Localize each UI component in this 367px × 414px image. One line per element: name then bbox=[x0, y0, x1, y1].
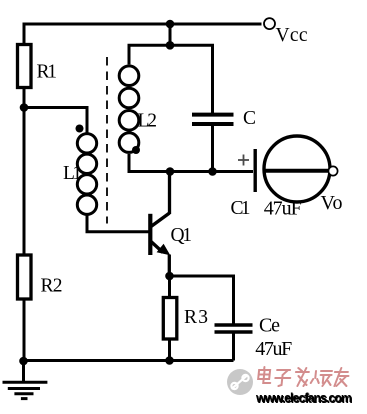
svg-text:R2: R2 bbox=[41, 276, 63, 297]
transistor Q1 emitter diagonal with arrowhead bbox=[151, 242, 163, 253]
L2 polarity dot bbox=[132, 146, 140, 154]
C1 plus polarity sign bbox=[238, 155, 249, 166]
wire bottom rail bbox=[24, 359, 234, 362]
ground bbox=[3, 361, 48, 399]
transformer coupling dashed line bbox=[106, 57, 108, 224]
resistor R1 bbox=[18, 45, 32, 88]
watermark logo circle bbox=[227, 369, 253, 395]
wire L2 bottom along tank bottom rail to C1 plate bbox=[129, 154, 253, 172]
svg-text:R1: R1 bbox=[37, 62, 58, 83]
wire R3 bottom bbox=[168, 339, 171, 361]
watermark title (vector strokes imitating CJK glyphs) bbox=[257, 367, 349, 386]
output terminal small circle bbox=[328, 166, 337, 175]
wire emitter vertical bbox=[168, 255, 171, 277]
Vcc terminal circle bbox=[264, 18, 275, 29]
svg-text:L2: L2 bbox=[138, 111, 158, 132]
wire left rail below R2 bbox=[23, 298, 26, 361]
node junction tank rail at x=170 bbox=[166, 41, 175, 50]
svg-text:Vcc: Vcc bbox=[276, 25, 308, 46]
node junction top wire at x=170 bbox=[166, 20, 175, 29]
svg-text:Vo: Vo bbox=[321, 192, 343, 214]
svg-text:www.elecfans.com: www.elecfans.com bbox=[255, 391, 352, 405]
transistor Q1 base bar bbox=[148, 214, 152, 255]
svg-text:C1: C1 bbox=[231, 198, 251, 219]
capacitor C plates bbox=[192, 113, 234, 117]
wire vertical link between top rail and tank rail bbox=[169, 24, 172, 45]
wire collector vertical bbox=[168, 172, 171, 215]
node junction emitter bbox=[165, 272, 174, 281]
wire left rail between R1 and R2 bbox=[23, 87, 26, 254]
svg-text:Ce: Ce bbox=[259, 315, 280, 337]
wire L1 bottom to Q1 base bbox=[87, 214, 149, 232]
transistor Q1 collector diagonal bbox=[151, 213, 170, 227]
inductor L2 bbox=[119, 66, 139, 153]
svg-text:L1: L1 bbox=[63, 163, 82, 184]
wire emitter to Ce branch bbox=[170, 276, 234, 324]
wire top rail from left corner to Vcc terminal bbox=[24, 24, 262, 45]
svg-text:47uF: 47uF bbox=[255, 338, 292, 360]
wire Ce bottom lead bbox=[232, 333, 235, 361]
node junction bottom rail at R3 bbox=[165, 356, 174, 365]
wire tank top rail L2 to C bbox=[129, 45, 213, 113]
node junction tank bottom at C bbox=[208, 167, 217, 176]
wire C bottom lead bbox=[211, 126, 214, 172]
node junction ground bbox=[19, 357, 28, 366]
wire emitter down to R3 bbox=[168, 276, 171, 297]
node junction left rail base feed bbox=[20, 103, 29, 112]
capacitor Ce plates bbox=[215, 323, 253, 326]
inductor L1 bbox=[77, 134, 96, 215]
resistor R2 bbox=[18, 255, 32, 299]
output load circle Vo bbox=[264, 136, 330, 202]
svg-text:C: C bbox=[243, 108, 256, 129]
svg-text:Q1: Q1 bbox=[171, 225, 193, 246]
svg-text:R3: R3 bbox=[184, 307, 208, 328]
node junction tank bottom at collector bbox=[166, 167, 175, 176]
output line through circle bbox=[264, 169, 329, 173]
resistor R3 bbox=[163, 298, 177, 340]
L1 polarity dot bbox=[76, 125, 84, 133]
wire from left rail to L1 top bbox=[24, 108, 87, 135]
capacitor C1 plate bbox=[253, 149, 256, 192]
